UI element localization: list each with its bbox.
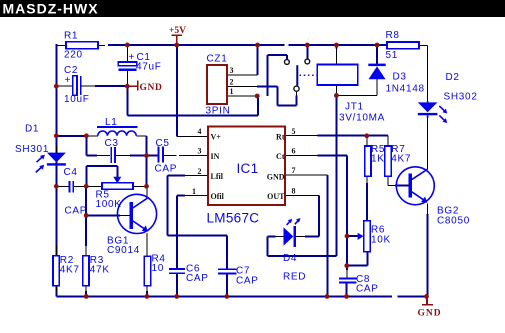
capacitor C1 leads (126, 46, 128, 85)
wire C3/C5 node (86, 136, 157, 156)
svg-text:CAP: CAP (155, 164, 178, 175)
wire +5V top rail (108, 44, 387, 46)
wire left supply vertical (55, 44, 57, 297)
svg-text:CAP: CAP (236, 276, 259, 287)
svg-text:+5V: +5V (169, 26, 186, 36)
svg-text:10K: 10K (371, 235, 391, 246)
label C8 (356, 274, 379, 295)
svg-text:1N4148: 1N4148 (386, 84, 425, 95)
op-amp U1 IC1 box (208, 126, 285, 205)
label D1 (15, 124, 49, 156)
svg-text:D4: D4 (283, 253, 297, 264)
svg-text:+: + (129, 52, 136, 63)
transistor BG2 emitter stroke with arrow (412, 192, 427, 203)
svg-text:4: 4 (198, 127, 202, 136)
resistor R2 stubs (55, 246, 57, 291)
svg-text:R1: R1 (64, 31, 78, 42)
capacitor C6 lower lead (176, 274, 178, 296)
label LM567C (207, 211, 260, 226)
IC1 pin6 Ct wire down to R6 network (285, 156, 347, 278)
label C2 (64, 65, 90, 105)
diode D3 cathode bar (368, 64, 385, 67)
label C3 (105, 138, 119, 149)
transistor BG2 collector stroke (412, 169, 428, 179)
relay JT1 coil box (317, 65, 357, 86)
resistor R3 (83, 256, 89, 286)
transistor BG1 collector lead (146, 186, 148, 198)
label C6 (186, 264, 209, 285)
svg-text:220: 220 (64, 50, 83, 61)
svg-text:Rt: Rt (276, 133, 285, 142)
relay JT1 armature lever (296, 65, 298, 85)
wire R5 wiper (86, 166, 117, 187)
label R5 pot (96, 190, 122, 211)
label JT1 (339, 102, 385, 124)
label GND upper (140, 83, 163, 93)
diode D3 leads (338, 45, 378, 95)
svg-text:8: 8 (292, 186, 296, 195)
label R1 (64, 31, 83, 61)
inductor L1 coil (98, 131, 136, 136)
svg-text:V+: V+ (211, 133, 222, 142)
svg-text:CAP: CAP (356, 284, 379, 295)
label CZ1 (206, 54, 231, 117)
svg-text:4K7: 4K7 (391, 154, 411, 165)
svg-text:CAP: CAP (65, 206, 88, 217)
svg-text:CAP: CAP (186, 273, 209, 284)
label D4 (283, 253, 306, 283)
label C4 (64, 167, 88, 217)
wire gnd-net C1 to CZ1 pin1 (127, 86, 258, 116)
relay JT1 fixed contact B (305, 59, 310, 64)
wire BG1 base node down to R3 (85, 186, 87, 256)
transistor BG2 circle (396, 167, 434, 205)
wire R6 wiper tap (347, 235, 358, 237)
diode D1 stubs (55, 146, 57, 153)
resistor R2 (53, 256, 59, 286)
svg-text:IN: IN (211, 152, 220, 161)
svg-text:Lfil: Lfil (211, 172, 224, 181)
label IC1 (237, 161, 259, 176)
resistor R7 (385, 146, 391, 176)
relay JT1 fixed contact A (285, 60, 290, 65)
wire L1 node horizontal (56, 136, 146, 156)
connector CZ1 pin lines (227, 75, 258, 96)
IC1 pin names (211, 133, 286, 201)
label R5 1K (371, 144, 385, 165)
potentiometer R5 body (102, 183, 133, 189)
svg-text:4K7: 4K7 (60, 265, 80, 276)
potentiometer R5 wiper arrowhead (113, 177, 121, 184)
svg-text:C9014: C9014 (107, 245, 140, 256)
svg-text:100K: 100K (96, 199, 122, 210)
wire BG1 base (86, 214, 129, 216)
wire R5(1K) bottom to R6 top (366, 176, 368, 220)
svg-text:JT1: JT1 (345, 102, 364, 113)
wire R7 bottom to BG2 base (388, 176, 408, 185)
potentiometer R5 leads (87, 185, 147, 187)
resistor R8 leads (419, 45, 428, 101)
svg-text:10: 10 (152, 263, 165, 274)
diode D4 anode wire (267, 237, 283, 256)
svg-text:7: 7 (292, 166, 296, 175)
svg-text:C4: C4 (64, 167, 78, 178)
relay JT1 moving contact C (294, 86, 299, 91)
resistor R4 lower stub (146, 286, 148, 297)
svg-text:SH301: SH301 (15, 144, 49, 155)
label C5 (155, 138, 178, 175)
diode D2 triangle (418, 102, 438, 112)
relay JT1 linkage dotted line (300, 74, 317, 76)
svg-text:MASDZ-HWX: MASDZ-HWX (3, 1, 99, 17)
capacitor C7 plates (218, 268, 236, 274)
relay JT1 coil leads (335, 45, 337, 96)
transistor BG2 base bar (408, 174, 412, 198)
power +5V symbol (172, 35, 182, 43)
diode D2 emitting arrows (439, 106, 447, 123)
resistor R4 (144, 256, 150, 286)
wire CZ1 pin1 to relay contact A (267, 55, 287, 96)
resistor R1 (66, 42, 98, 49)
ground GND symbol lower right (422, 296, 433, 304)
diode D2 lead through (427, 101, 429, 118)
wire C2 node horizontal (57, 85, 126, 87)
svg-text:5: 5 (292, 127, 296, 136)
label D3 (386, 72, 425, 95)
diode D1 cathode bar (47, 163, 66, 165)
label C7 (236, 266, 259, 287)
label R3 (90, 255, 110, 276)
svg-text:3V/10MA: 3V/10MA (339, 113, 385, 124)
svg-text:2: 2 (198, 167, 202, 176)
capacitor C1 top plate (118, 62, 136, 66)
capacitor C4 leads (57, 185, 86, 187)
svg-text:51: 51 (386, 50, 399, 61)
transistor BG1 collector stroke (133, 198, 148, 208)
wire relay contact B to rail (306, 45, 308, 59)
diode D1 incoming arrows (36, 155, 45, 173)
CZ1 pin numbers (230, 66, 234, 96)
svg-text:GND: GND (418, 309, 442, 319)
svg-text:Ofil: Ofil (211, 192, 225, 201)
svg-text:47uF: 47uF (136, 62, 162, 73)
label L1 (105, 117, 118, 128)
diode D4 emitting arrows (287, 218, 301, 225)
capacitor C7 lower lead (226, 274, 228, 296)
svg-text:47K: 47K (90, 265, 110, 276)
potentiometer R6 wiper arrowhead (358, 233, 364, 240)
capacitor C2 plates (73, 76, 82, 96)
title bar (0, 0, 505, 17)
wire relay coil bottom long vertical to D4 node (267, 96, 336, 256)
diode D1 triangle (47, 153, 66, 163)
label R2 (60, 255, 80, 276)
label +5V (169, 26, 186, 36)
svg-text:3PIN: 3PIN (206, 106, 231, 117)
resistor R6 body (364, 221, 371, 252)
svg-text:6: 6 (292, 147, 296, 156)
resistor R8 (387, 42, 419, 49)
svg-text:RED: RED (283, 272, 306, 283)
inductor L1 core bar (97, 126, 138, 128)
diode D4 triangle (284, 227, 294, 246)
label D2 (444, 72, 478, 103)
wire L1/C3 right node down to R5 (146, 156, 148, 187)
capacitor C4 plates (69, 181, 75, 192)
diode D3 triangle (369, 66, 386, 79)
label R7 (391, 144, 411, 165)
capacitor C8 lower lead (346, 283, 348, 296)
capacitor C6 plates (169, 268, 185, 274)
svg-text:C8050: C8050 (437, 216, 470, 227)
svg-text:L1: L1 (105, 117, 118, 128)
transistor BG1 emitter stroke with arrow (133, 221, 148, 232)
wire R6 bottom loop (347, 252, 368, 266)
svg-text:C3: C3 (105, 138, 119, 149)
svg-text:D3: D3 (393, 72, 407, 83)
diode D2 lower lead to BG2 collector (427, 116, 429, 169)
label R4 (152, 254, 166, 274)
IC1 pin8 OUT wire to D4 cathode (285, 195, 319, 236)
capacitor C8 plates (339, 278, 357, 284)
svg-text:GND: GND (140, 83, 163, 93)
capacitor C5 plates (158, 147, 164, 163)
transistor BG2 emitter lead to ground (427, 204, 429, 297)
svg-text:D1: D1 (25, 124, 39, 135)
resistor R3 lower stub (85, 286, 87, 297)
svg-text:SH302: SH302 (444, 92, 478, 103)
label R6 (371, 225, 391, 246)
wire +5V drop to V+ (177, 45, 208, 137)
svg-text:Ct: Ct (276, 152, 285, 161)
resistor R1 stubs (56, 44, 105, 46)
svg-text:3: 3 (198, 147, 202, 156)
label BG1 (107, 236, 140, 256)
svg-text:3: 3 (230, 66, 234, 75)
diode D2 cathode bar (418, 113, 438, 115)
capacitor C3 plates (110, 147, 116, 163)
IC1 pin7 GND wire to bottom rail (285, 175, 327, 296)
svg-text:1K: 1K (371, 154, 385, 165)
capacitor C1 bottom plate (118, 68, 136, 71)
svg-text:GND: GND (267, 173, 285, 182)
transistor BG1 emitter lead to R4 (146, 233, 148, 256)
svg-text:LM567C: LM567C (207, 211, 260, 226)
diode D4 cathode bar (293, 226, 296, 247)
wire CZ1 pin2 to relay common (257, 87, 297, 106)
svg-text:D2: D2 (446, 72, 460, 83)
svg-text:1: 1 (230, 87, 234, 96)
resistor R5 1K (365, 146, 371, 176)
label C1 (129, 52, 162, 73)
wire bottom ground rail (56, 295, 426, 297)
transistor BG1 base bar (129, 202, 132, 229)
svg-text:CZ1: CZ1 (207, 54, 228, 65)
svg-text:IC1: IC1 (237, 161, 259, 176)
svg-text:R8: R8 (386, 30, 400, 41)
svg-text:2: 2 (230, 78, 234, 87)
label R8 (386, 30, 400, 61)
label GND lower (418, 309, 442, 319)
connector CZ1 box (207, 65, 227, 104)
svg-text:1: 1 (192, 187, 196, 196)
svg-text:C5: C5 (156, 138, 170, 149)
IC1 pin2 Lfil wire to C7 (168, 176, 228, 269)
label BG2 (437, 206, 470, 227)
wire CZ1 pin3 to rail (257, 45, 259, 75)
IC1 pin3 IN wire (164, 155, 208, 157)
transistor BG1 circle (117, 194, 156, 233)
svg-text:10uF: 10uF (64, 94, 90, 105)
IC1 pin1 Ofil wire to C6 (177, 196, 208, 269)
IC1 pin numbers (192, 127, 296, 196)
ground GND symbol upper (128, 81, 138, 91)
IC1 pin5 Rt wire to R5/R7 (285, 136, 388, 146)
svg-text:+: + (65, 75, 72, 86)
svg-text:OUT: OUT (267, 192, 285, 201)
